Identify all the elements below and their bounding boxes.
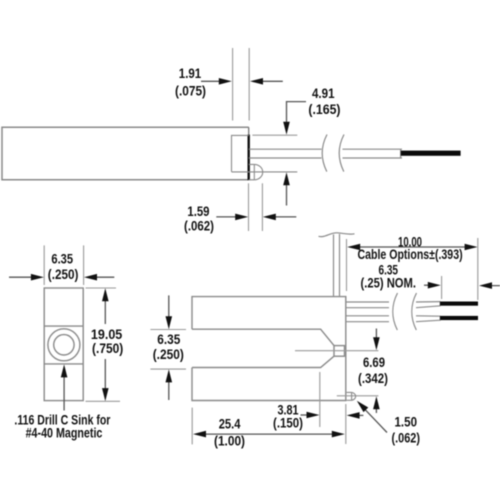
svg-text:6.69: 6.69 [363, 355, 385, 370]
svg-text:#4-40 Magnetic: #4-40 Magnetic [26, 426, 103, 441]
svg-text:(.342): (.342) [358, 371, 388, 386]
svg-text:(1.00): (1.00) [214, 434, 245, 449]
svg-text:4.91: 4.91 [312, 86, 335, 101]
svg-text:(.250): (.250) [153, 347, 184, 362]
svg-text:(.750): (.750) [92, 341, 123, 356]
svg-text:(.25) NOM.: (.25) NOM. [361, 276, 417, 291]
svg-text:25.4: 25.4 [219, 416, 241, 431]
svg-text:Cable Options±(.393): Cable Options±(.393) [358, 247, 463, 262]
svg-text:(.062): (.062) [184, 219, 214, 234]
svg-text:(.150): (.150) [273, 416, 303, 431]
svg-text:1.91: 1.91 [179, 66, 202, 81]
svg-text:(.075): (.075) [175, 83, 206, 98]
svg-text:1.59: 1.59 [187, 204, 209, 219]
svg-text:(.165): (.165) [308, 102, 340, 117]
svg-text:(.062): (.062) [392, 430, 421, 445]
svg-text:19.05: 19.05 [91, 327, 123, 342]
svg-text:(.250): (.250) [48, 267, 79, 282]
svg-text:1.50: 1.50 [395, 415, 418, 430]
svg-text:6.35: 6.35 [157, 332, 180, 347]
svg-text:6.35: 6.35 [51, 252, 73, 267]
